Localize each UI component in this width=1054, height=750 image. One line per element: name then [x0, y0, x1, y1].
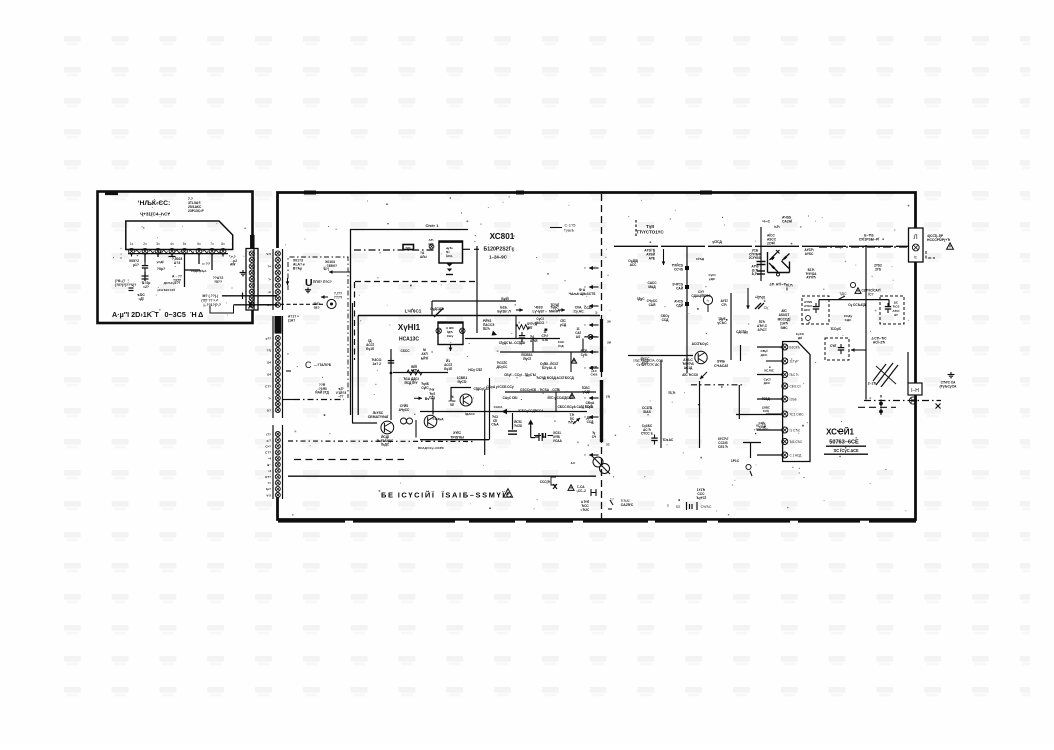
svg-text:C: C — [305, 360, 312, 370]
svg-text:⊙??: ⊙?? — [265, 475, 271, 479]
wire branch pin5 — [185, 269, 201, 271]
svg-text:Сү ССѢАЇД: Сү ССѢАЇД — [848, 303, 866, 307]
wire x432 vertical — [431, 301, 433, 316]
pin link tilde — [163, 250, 168, 252]
label A300 regulator — [368, 411, 389, 419]
arrow diag — [573, 418, 580, 424]
pad pair — [401, 418, 413, 424]
label IN 2 (audio) — [203, 303, 221, 307]
connector CN801 pin 1 — [275, 251, 280, 256]
wire x477 vertical — [476, 246, 478, 333]
svg-text:∆Ћ АҮЇ∼Ћ: ∆Ћ АҮЇ∼Ћ — [770, 283, 787, 287]
connector CN102 pin 3 — [249, 264, 254, 269]
connector CN803 pin 7 — [275, 468, 280, 473]
svg-text:A·µ″I 2D›1K‾Τ 0−3C5 Ή Δ: A·µ″I 2D›1K‾Τ 0−3C5 Ή Δ — [112, 310, 203, 319]
wire CN802 tick — [286, 370, 291, 372]
earth triangle right — [947, 243, 954, 249]
wire Q903 collector — [451, 388, 472, 402]
connector CN801 pin 2 — [275, 257, 280, 262]
left box border through connector — [253, 249, 255, 311]
svg-text:ЇЇ: ЇЇ — [785, 287, 788, 291]
label cluster 53 — [557, 405, 592, 409]
svg-text:НСү С⇅Ї: НСү С⇅Ї — [468, 368, 481, 372]
svg-text:СЕМАТҮΘАЇ: СЕМАТҮΘАЇ — [368, 415, 389, 419]
label 2052 — [874, 264, 882, 272]
label cluster 12 — [499, 341, 525, 345]
capacitor C942 — [535, 433, 546, 441]
label X030 — [450, 431, 464, 439]
label fuse F801 — [762, 220, 771, 224]
svg-text:(??: (?? — [266, 432, 271, 436]
separator heavy blotch lower — [600, 380, 603, 442]
arrow feedback — [700, 372, 707, 379]
svg-text:(?0?(?)??%(?: (?0?(?)??%(? — [115, 283, 136, 287]
svg-text:СДЇ: СДЇ — [157, 250, 162, 254]
svg-text:ЇС?: ЇС? — [867, 292, 873, 296]
label Q903 pads — [449, 395, 456, 407]
capacitor C103 plates — [142, 276, 149, 279]
label X0901 part — [399, 337, 419, 343]
label cluster 32 — [796, 332, 805, 340]
label tick — [177, 281, 180, 285]
svg-text:ЬЋ: ЬЋ — [774, 225, 779, 229]
svg-text:Б1СӀЇѢ: Б1СӀЇѢ — [790, 345, 801, 349]
label cluster 16 — [540, 362, 558, 370]
label Y7B C300 — [749, 249, 762, 261]
svg-text:СДС: СДС — [845, 318, 852, 322]
label R923 — [421, 382, 429, 390]
svg-text:СДСЇДү: СДСЇДү — [736, 330, 748, 334]
label near sep — [592, 431, 597, 439]
pin link tilde — [189, 250, 194, 252]
label cluster 42 — [157, 288, 175, 292]
label 101 parts — [696, 488, 706, 500]
svg-text:23P13C•P: 23P13C•P — [188, 209, 204, 213]
svg-text:•4: •4 — [268, 457, 271, 461]
bracket mark bl — [551, 477, 556, 485]
svg-text:6x: 6x — [197, 242, 201, 246]
wire arrow into block — [329, 270, 350, 274]
svg-text:СІ(: СІ( — [764, 306, 770, 310]
svg-text:µ1?: µ1? — [133, 263, 139, 267]
label remote eye — [313, 302, 320, 310]
pin link tilde — [136, 250, 141, 252]
connector CN801 body — [273, 249, 283, 310]
connector CN802 pin 8 — [275, 378, 280, 383]
label R105 — [157, 267, 165, 271]
pin link tilde — [176, 250, 181, 252]
svg-text:үСЇСД: үСЇСД — [712, 240, 722, 244]
wire stub L-shape — [210, 306, 234, 314]
wire X0901 bottom stub — [449, 345, 453, 352]
wire defl left — [357, 316, 359, 415]
svg-text:АССЇѢСүС: АССЇѢСүС — [692, 342, 710, 346]
svg-text:≈↑??: ≈↑?? — [202, 262, 210, 266]
svg-text:ӀАССӀ: ӀАССӀ — [536, 321, 545, 325]
connector CN803 pin 9 — [275, 480, 280, 485]
label A03 stack — [644, 249, 656, 261]
capacitor C102 — [142, 262, 148, 272]
wire CN802 stub right — [283, 399, 295, 401]
wire x484 vertical — [484, 390, 486, 455]
svg-text:ЇДАСС: ЇДАСС — [464, 412, 475, 416]
label cluster 39 — [759, 421, 767, 429]
wire X0801 bottom triangle — [447, 264, 453, 267]
svg-text:УСАА: УСАА — [553, 439, 563, 443]
connector CN802 pin 10 — [275, 390, 280, 395]
svg-text:АҮЋ: АҮЋ — [411, 369, 418, 373]
svg-text:ХС ЛІС: ХС ЛІС — [764, 369, 775, 373]
resistor on standby line — [685, 266, 689, 270]
svg-text:≈Ӏ∼С: ≈Ӏ∼С — [762, 220, 771, 224]
svg-text:B?Aµ: B?Aµ — [293, 267, 302, 271]
svg-text:САЙ: САЙ — [676, 286, 684, 290]
IC X0901 left pin — [436, 328, 441, 333]
connector CN802 pin 12 — [275, 402, 280, 407]
svg-text:2–1Ћ: 2–1Ћ — [868, 382, 877, 386]
wire degauss return dash — [858, 406, 896, 408]
svg-text:АЇС ЋССӀІ: АЇС ЋССӀІ — [682, 373, 698, 377]
node tick video — [242, 293, 244, 300]
svg-text:үДС: үДС — [709, 277, 716, 281]
wire up-arrow branch — [528, 420, 535, 438]
label under Q902 — [377, 435, 394, 447]
connector CN801 pin 5 — [275, 277, 280, 282]
svg-text:АЅ: АЅ — [576, 335, 580, 339]
label cluster 18 — [591, 365, 599, 377]
wire x866 vertical — [865, 245, 867, 400]
svg-text:ЅС ЇСүС ∆СӀІ: ЅС ЇСүС ∆СӀІ — [834, 448, 859, 453]
svg-text:⌜!⌝: ⌜!⌝ — [610, 497, 615, 502]
svg-text:СДЙ: СДЙ — [676, 303, 684, 307]
svg-text:СҼү: СҼү — [447, 334, 454, 338]
label X mark — [785, 284, 793, 292]
separator left arrow — [584, 415, 598, 419]
label bracket parts — [540, 480, 551, 484]
svg-text:?E?: ?E? — [313, 306, 319, 310]
label cluster 38 — [761, 397, 770, 401]
svg-text:ЇѢДСү: ЇѢДСү — [190, 269, 201, 273]
label C102 value — [129, 259, 139, 267]
label R820 — [641, 357, 651, 365]
arrow Rp — [414, 396, 422, 400]
svg-text:5x: 5x — [183, 242, 187, 246]
wire x908 vertical — [907, 352, 909, 383]
label A3 row — [751, 265, 758, 277]
separator left arrow — [584, 304, 598, 308]
svg-text:үСДЇ: үСДЇ — [582, 390, 589, 394]
label E-R3 — [859, 234, 879, 242]
IC X801 pin 6 — [782, 411, 804, 417]
label X0801 pin data — [445, 246, 453, 258]
svg-text:АЋЙ: АЋЙ — [530, 339, 538, 343]
svg-text:ССЇ): ССЇ) — [763, 409, 769, 413]
svg-text:⊙4: ⊙4 — [267, 303, 272, 307]
svg-text:11ТүР: 11ТүР — [790, 359, 799, 363]
label cluster 55 — [464, 412, 475, 416]
label below pin6 — [199, 269, 207, 273]
label cluster 15 — [581, 349, 589, 357]
svg-text:V·5: V·5 — [266, 493, 271, 497]
svg-text:⊙?: ⊙? — [267, 408, 272, 412]
wire defl stub v4 — [582, 339, 584, 353]
ground under S001 — [305, 288, 311, 293]
control block dashed outline — [288, 257, 348, 398]
svg-text:ТДЇС: ТДЇС — [839, 292, 847, 296]
net pointer C-105 — [550, 223, 576, 233]
wire x489 vertical — [489, 378, 491, 440]
svg-text:У: У — [584, 453, 586, 457]
svg-text:8x: 8x — [221, 242, 225, 246]
svg-text:ДСѢСүЇІ: ДСѢСүЇІ — [164, 281, 177, 285]
wire reg row — [393, 372, 448, 374]
wire degauss rail — [819, 246, 909, 248]
label S001 — [313, 280, 332, 284]
wire to pin6 — [736, 414, 781, 416]
label X0103 — [293, 259, 305, 271]
connector CN802 pin 7 — [275, 372, 280, 377]
label standby resistor — [672, 283, 683, 291]
wire lower bus — [420, 411, 587, 413]
connector CN803 pin 10 — [275, 486, 280, 491]
svg-text:ССД: ССД — [587, 420, 595, 424]
scan noise specks (decorative) — [113, 196, 909, 515]
connector CN102 front jack strip — [246, 249, 258, 311]
svg-text:ЋЋАЇ: ЋЋАЇ — [621, 499, 630, 503]
board title SCH1 — [826, 428, 854, 437]
svg-text:ЇСД: ЇСД — [557, 344, 564, 348]
label cluster 3 — [661, 314, 670, 322]
wire x740 vertical stub — [740, 345, 742, 361]
connector CN802 pin 11 — [275, 396, 280, 401]
wire pin2 drop — [144, 254, 146, 263]
capacitor C915 — [388, 357, 394, 367]
svg-text:⇅?|: ⇅?| — [323, 267, 329, 271]
connector CN802 pin 2 — [275, 342, 280, 347]
svg-text:НСА13С: НСА13С — [399, 337, 419, 343]
label A30 column — [778, 309, 791, 330]
label cluster 49 — [457, 376, 468, 384]
transistor Q801 — [695, 351, 707, 363]
label input row — [115, 279, 136, 287]
svg-text:?0µ?: ?0µ? — [157, 267, 165, 271]
label cluster 29 — [708, 273, 715, 281]
label cluster 21 — [486, 385, 514, 389]
label R921 — [411, 365, 418, 373]
svg-text:?•: ?• — [268, 396, 271, 400]
label cluster 43 — [137, 293, 145, 301]
capacitor C909 — [519, 332, 525, 342]
svg-text:У: У — [584, 285, 586, 289]
wire inner left rail — [350, 230, 352, 416]
label 2-1 — [868, 382, 877, 386]
snubber block 1 dashed — [802, 296, 829, 324]
svg-text:C≈?: C≈? — [265, 445, 271, 449]
svg-text:АЋС Ї: АЋС Ї — [758, 328, 767, 332]
label sep right 4 — [606, 443, 611, 447]
label C909 — [530, 335, 538, 343]
svg-text:СБ Е СӀ: СБ Е СӀ — [790, 384, 801, 388]
svg-text:АЧүСС: АЧүСС — [399, 408, 410, 412]
wire snubber drop R — [888, 300, 890, 307]
label cluster 5 — [712, 240, 722, 244]
wire stub to X801 pin 1 — [757, 346, 782, 348]
resistor R921 — [407, 370, 422, 375]
svg-text:∆Ү: ∆Ү — [894, 313, 898, 317]
separator left arrow — [584, 266, 598, 270]
label bottom of block — [315, 383, 329, 395]
svg-text:СДү: СДү — [429, 396, 436, 400]
tick A2 — [608, 500, 613, 509]
svg-text:µ??: µ?? — [266, 336, 272, 340]
svg-text:ѢӀ1 СѢС: ѢӀ1 СѢС — [790, 440, 804, 444]
wire IC pins baseline — [128, 253, 228, 255]
wire stub to X801 pin 6 — [766, 413, 782, 415]
IC U101 pin 4 — [169, 242, 175, 254]
degauss relay block dashed — [825, 338, 849, 360]
connector CN802 pin 5 — [275, 360, 280, 365]
wire x699 vertical — [699, 381, 701, 448]
main board outline — [278, 193, 916, 520]
svg-text:үСДЇ: үСДЇ — [157, 260, 164, 264]
svg-text:50763–6СЕ: 50763–6СЕ — [829, 440, 859, 446]
label board subtitle — [140, 212, 171, 217]
wire ac rail — [614, 245, 909, 247]
component row bottom right — [667, 502, 712, 510]
svg-text:ХүНӀ1: ХүНӀ1 — [398, 323, 421, 332]
connector CN801 pin 6 — [275, 283, 280, 288]
svg-text:ТЋҮСТО1ҮС: ТЋҮСТО1ҮС — [636, 229, 664, 234]
jumper mark — [610, 497, 630, 503]
wire stub to X801 pin 2 — [766, 360, 782, 362]
wire pin5 drop — [184, 254, 186, 288]
wire hbus — [358, 315, 600, 317]
svg-text:үСАѢСІ ССЇ: үСАѢСІ ССЇ — [157, 288, 175, 292]
svg-text:ЋСЅӀ: ЋСЅӀ — [514, 424, 522, 428]
warn triangle near separator 1 — [571, 358, 576, 363]
label cluster 7 — [550, 303, 559, 307]
svg-text:≈2?: ≈2? — [143, 285, 149, 289]
label cluster 14 — [521, 353, 532, 361]
label xl codes — [754, 424, 770, 432]
connector CN801 pin 7 — [275, 289, 280, 294]
IC U101 pin 3 — [155, 242, 161, 254]
connector CN802 pin 1 — [275, 336, 280, 341]
connector CN801 pin 3 — [275, 264, 280, 269]
warn triangle near separator 2 — [569, 393, 574, 398]
IC U101 pin 7 — [209, 242, 215, 254]
svg-text:?!: ?! — [177, 281, 180, 285]
wire net GND long — [288, 475, 596, 477]
svg-text:??|: ??| — [266, 348, 271, 352]
label R823 — [642, 406, 653, 414]
arrowhead on lower bus — [502, 409, 508, 414]
x mark — [553, 484, 557, 489]
label A633 — [782, 216, 792, 224]
svg-text:СүДСДѢ: СүДСДѢ — [430, 307, 444, 311]
IC X0901 top bar — [438, 322, 463, 324]
resistor R905 — [516, 325, 529, 330]
label L-mark — [774, 225, 779, 229]
svg-text:ЙүСЇ2: ЙүСЇ2 — [457, 380, 466, 384]
svg-text:СЇүДСѢІ─ССЇДАІ: СЇүДСѢІ─ССЇДАІ — [499, 341, 525, 345]
svg-text:⊙4: ⊙4 — [267, 372, 272, 376]
wire defl stub v3 — [570, 352, 572, 372]
connector CN102 pin 2 — [249, 257, 254, 262]
svg-text:СЅСС: СЅСС — [400, 349, 410, 353]
label cluster 22 — [520, 388, 561, 392]
label Rp — [425, 397, 429, 401]
svg-text:ДСүСС: ДСүСС — [497, 365, 509, 369]
IC X801 regulator body — [783, 342, 810, 462]
wire agc dash-dot — [354, 249, 434, 251]
wire C102 to gnd — [144, 272, 146, 281]
label J20 — [405, 246, 412, 250]
svg-text:C??: C?? — [265, 384, 271, 388]
wire snubber top — [819, 299, 889, 301]
earth symbol pair — [850, 282, 861, 293]
pin link tilde — [203, 250, 208, 252]
connector CN802 pin 3 — [275, 348, 280, 353]
wire pin3 stub — [157, 254, 159, 258]
wire arrow on hbus — [516, 308, 523, 312]
connector CN803 pin 4 — [275, 450, 280, 455]
IC X801 pin 1 — [782, 344, 801, 350]
wire defl h3 — [505, 391, 596, 393]
main board bottom heavy border — [278, 520, 916, 522]
wire stub to X801 pin 3 — [757, 374, 782, 376]
label cluster 17 — [497, 361, 509, 369]
label cluster 10 — [560, 319, 567, 327]
wire x687 vertical — [686, 246, 688, 373]
label X0801 date — [489, 255, 508, 260]
pad in block1 — [806, 316, 811, 321]
svg-text:У: У — [584, 366, 586, 370]
svg-text:■−: ■− — [267, 463, 271, 467]
svg-text:?5??: ?5?? — [214, 280, 222, 284]
label posistor — [871, 337, 887, 345]
label C941 — [514, 420, 523, 428]
separator left arrow — [584, 335, 598, 339]
separator left arrow — [584, 285, 598, 289]
svg-text:ЇЅ,Ћ: ЇЅ,Ћ — [668, 391, 676, 395]
label block1 parts — [804, 300, 813, 312]
svg-text:АҮҮЇЋ: АҮҮЇЋ — [806, 276, 816, 280]
wire x661 vertical — [660, 360, 662, 448]
wire defl h1 — [465, 338, 560, 340]
label 1P1 — [731, 459, 740, 463]
label above pin — [428, 238, 433, 246]
wire pin7 drop — [211, 254, 213, 271]
IC U101 audio/video switch package — [126, 221, 233, 250]
svg-text:⊙4: ⊙4 — [267, 360, 272, 364]
x mark right of border — [936, 404, 941, 409]
svg-text:ТРӀЅҮБІ: ТРӀЅҮБІ — [450, 435, 464, 439]
svg-text:ХС1 СҼС: ХС1 СҼС — [790, 412, 805, 416]
wire board link upper — [258, 295, 277, 297]
label cluster 33 — [830, 327, 842, 331]
capacitor C801 main filter — [757, 262, 766, 275]
label inside X0901 — [446, 326, 455, 338]
label block2 parts — [892, 301, 900, 318]
wire arrow into relay block — [851, 348, 866, 352]
svg-text:ХҮЇС: ХҮЇС — [453, 431, 461, 435]
label R824 — [662, 438, 674, 442]
label part number underlined — [826, 440, 866, 447]
transistor Q902 — [381, 421, 394, 434]
connector CN803 pin 3 — [275, 444, 280, 449]
caption A/V front board — [112, 310, 203, 319]
